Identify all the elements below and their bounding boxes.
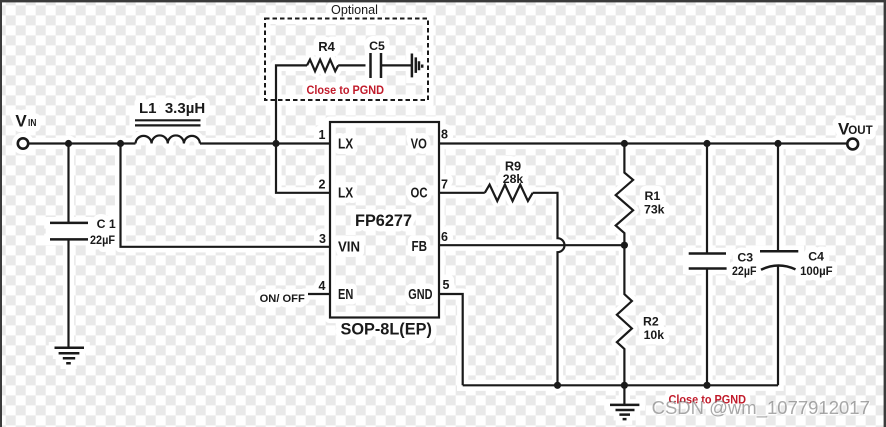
border left: [0, 0, 2, 427]
border right: [884, 0, 886, 427]
border top: [0, 0, 886, 2]
svg-text:CSDN @wm_1077912017: CSDN @wm_1077912017: [652, 397, 870, 419]
